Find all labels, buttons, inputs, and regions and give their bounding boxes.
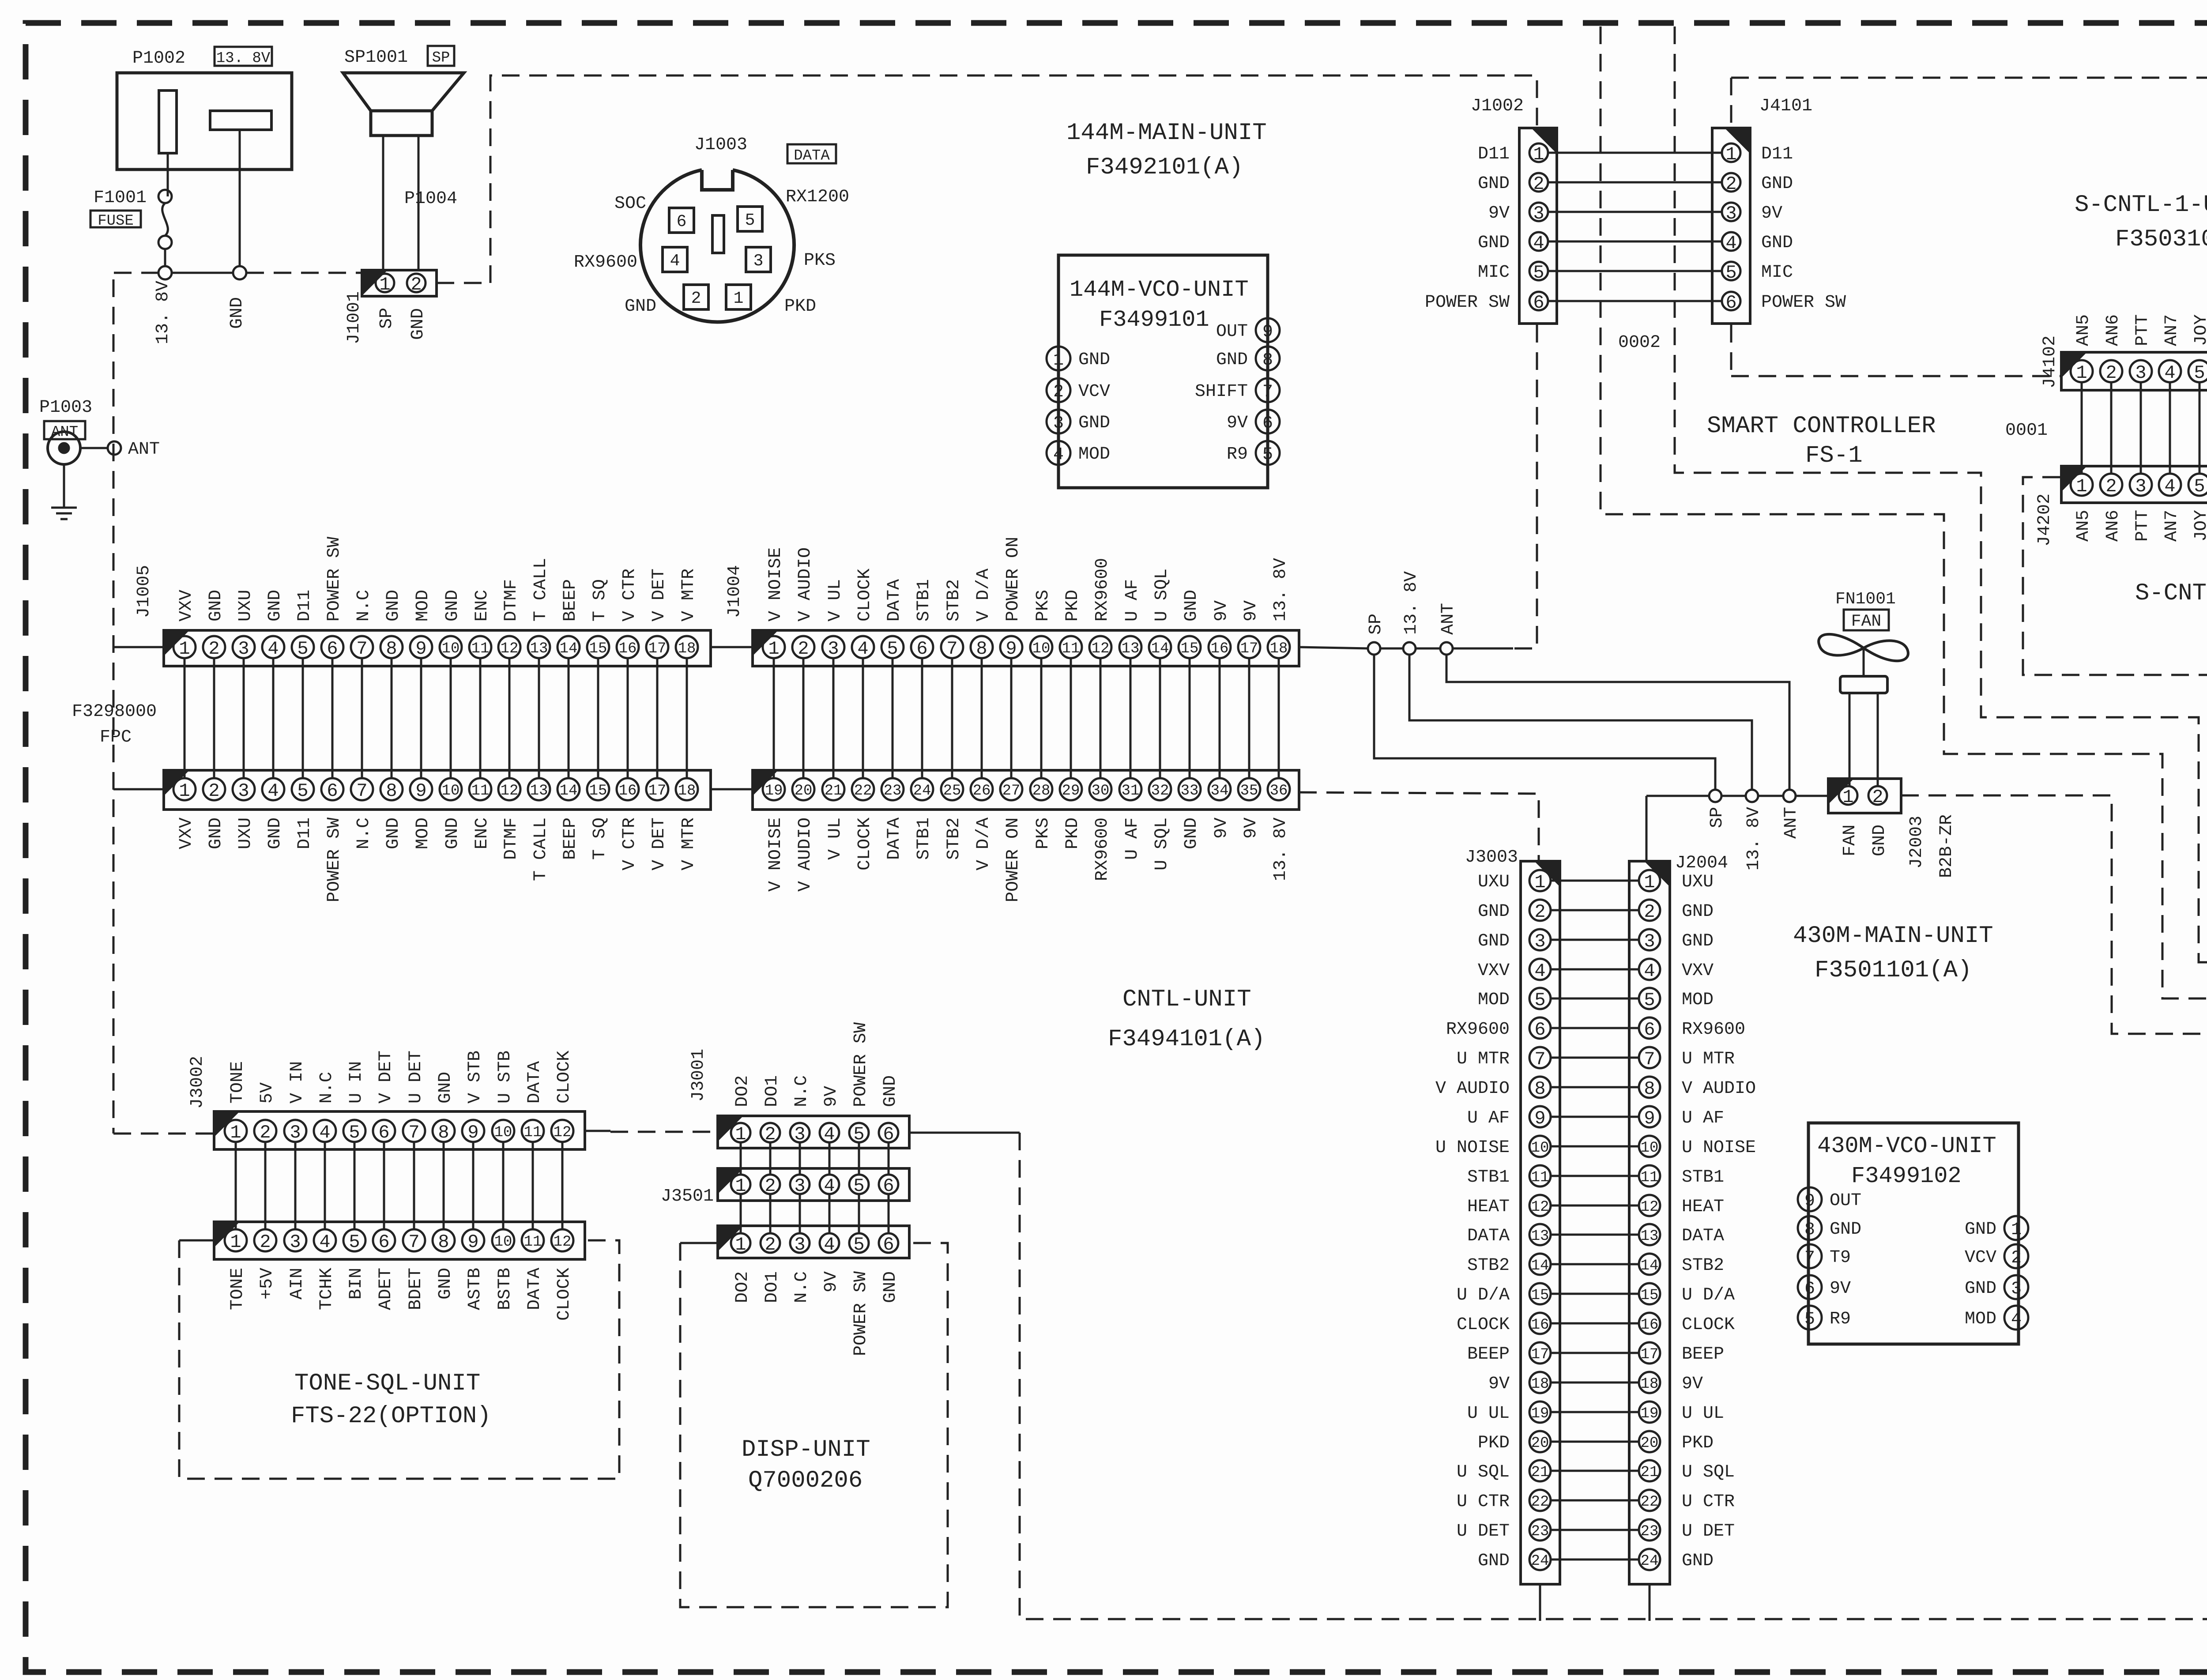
junction 13.8V (1) xyxy=(1403,642,1416,655)
svg-text:PKD: PKD xyxy=(1682,1433,1714,1453)
svg-text:3: 3 xyxy=(238,780,249,802)
svg-text:3: 3 xyxy=(290,1232,301,1253)
svg-text:26: 26 xyxy=(973,783,991,799)
svg-text:SP1001: SP1001 xyxy=(344,48,408,68)
svg-text:31: 31 xyxy=(1122,783,1140,799)
svg-text:8: 8 xyxy=(386,638,397,659)
svg-text:4: 4 xyxy=(2164,476,2175,497)
svg-text:SP: SP xyxy=(1366,614,1386,635)
boxed net label 13.8V xyxy=(215,47,272,66)
svg-text:STB2: STB2 xyxy=(944,579,964,622)
svg-text:5: 5 xyxy=(1534,990,1545,1011)
144M-VCO right pins 9-5 xyxy=(1256,318,1280,342)
svg-text:FAN: FAN xyxy=(1840,825,1860,856)
svg-text:CLOCK: CLOCK xyxy=(1682,1315,1735,1335)
svg-text:PTT: PTT xyxy=(2133,510,2153,542)
svg-text:2: 2 xyxy=(765,1175,776,1197)
svg-text:PKS: PKS xyxy=(1033,590,1053,622)
svg-text:22: 22 xyxy=(854,783,872,799)
svg-text:9V: 9V xyxy=(1830,1279,1851,1299)
svg-text:17: 17 xyxy=(1240,640,1258,657)
svg-text:N.C: N.C xyxy=(792,1075,812,1107)
svg-text:3: 3 xyxy=(2135,476,2146,497)
cable wires J4102 to J4202 xyxy=(2081,381,2083,475)
svg-text:DATA: DATA xyxy=(525,1268,545,1310)
svg-text:GND: GND xyxy=(436,1072,456,1104)
svg-text:D11: D11 xyxy=(295,590,315,622)
svg-text:24: 24 xyxy=(1531,1553,1549,1570)
430M-VCO right pins 1-4 xyxy=(2004,1216,2028,1240)
wire J1004 pin36 to J3003 xyxy=(1299,792,1539,861)
svg-text:6: 6 xyxy=(1534,1019,1545,1040)
wire S-CNTL-1 boundary (bottom-left) xyxy=(1731,375,2060,377)
svg-text:14: 14 xyxy=(1641,1258,1659,1274)
antenna jack P1003 (coax) xyxy=(48,432,80,464)
svg-text:T SQ: T SQ xyxy=(590,817,610,860)
svg-text:U MTR: U MTR xyxy=(1457,1049,1510,1069)
svg-text:18: 18 xyxy=(1531,1376,1549,1393)
svg-text:U D/A: U D/A xyxy=(1682,1285,1735,1305)
svg-text:MOD: MOD xyxy=(413,590,433,622)
svg-text:F3494101(A): F3494101(A) xyxy=(1108,1026,1265,1053)
svg-text:9: 9 xyxy=(1644,1108,1655,1129)
svg-text:0001: 0001 xyxy=(2005,421,2048,441)
svg-text:FTS-22(OPTION): FTS-22(OPTION) xyxy=(291,1403,491,1430)
wire J2004 bottom stem xyxy=(1649,1584,1651,1621)
svg-text:21: 21 xyxy=(1641,1464,1659,1481)
boxed label ANT xyxy=(44,421,85,439)
svg-text:19: 19 xyxy=(765,783,783,799)
svg-text:7: 7 xyxy=(1644,1049,1655,1070)
fan FN1001 motor xyxy=(1863,648,1865,676)
svg-text:2: 2 xyxy=(765,1234,776,1255)
wire between junctions xyxy=(1380,648,1403,650)
svg-text:4: 4 xyxy=(824,1234,835,1255)
svg-text:FAN: FAN xyxy=(1851,612,1881,631)
svg-text:24: 24 xyxy=(913,783,931,799)
cable wires J3002 xyxy=(235,1141,237,1230)
svg-text:6: 6 xyxy=(378,1232,389,1253)
svg-text:10: 10 xyxy=(1641,1140,1659,1156)
svg-text:J1002: J1002 xyxy=(1471,96,1524,116)
svg-text:CLOCK: CLOCK xyxy=(554,1268,574,1321)
svg-text:14: 14 xyxy=(560,640,578,657)
svg-text:13: 13 xyxy=(530,783,548,799)
svg-text:13. 8V: 13. 8V xyxy=(153,281,173,344)
svg-text:13: 13 xyxy=(530,640,548,657)
connector J4101 xyxy=(1712,128,1750,324)
connector J1002 xyxy=(1519,128,1557,324)
svg-text:2: 2 xyxy=(2105,362,2117,384)
svg-text:DO1: DO1 xyxy=(762,1075,782,1107)
svg-text:GND: GND xyxy=(206,590,226,622)
svg-text:3: 3 xyxy=(794,1234,805,1255)
boxed label FUSE xyxy=(90,211,141,227)
svg-text:24: 24 xyxy=(1641,1553,1659,1570)
svg-text:13. 8V: 13. 8V xyxy=(1401,571,1421,635)
svg-text:UXU: UXU xyxy=(236,817,256,849)
svg-text:D11: D11 xyxy=(1478,144,1510,164)
svg-text:PKD: PKD xyxy=(1478,1433,1510,1453)
wire J1005 to J1004 row1 xyxy=(711,646,753,648)
svg-text:CLOCK: CLOCK xyxy=(554,1051,574,1104)
svg-text:GND: GND xyxy=(1216,350,1248,370)
svg-text:144M-VCO-UNIT: 144M-VCO-UNIT xyxy=(1070,277,1249,303)
svg-text:5: 5 xyxy=(1533,262,1544,283)
svg-text:9V: 9V xyxy=(1488,203,1510,223)
svg-text:6: 6 xyxy=(883,1124,894,1145)
svg-text:OUT: OUT xyxy=(1216,322,1248,342)
wire 144M-MAIN-UNIT boundary (top) xyxy=(490,75,1537,283)
wire S-CNTL-1 boundary (left) xyxy=(1730,78,1732,127)
boxed label FAN xyxy=(1844,610,1889,630)
svg-text:GND: GND xyxy=(1078,413,1110,433)
svg-text:DATA: DATA xyxy=(794,148,830,165)
svg-text:R9: R9 xyxy=(1227,444,1248,464)
svg-text:8: 8 xyxy=(1262,350,1273,370)
svg-text:22: 22 xyxy=(1531,1494,1549,1510)
svg-text:GND: GND xyxy=(881,1271,900,1303)
svg-text:U NOISE: U NOISE xyxy=(1435,1138,1510,1158)
FPC ribbon wires J1004 xyxy=(773,657,775,779)
svg-text:21: 21 xyxy=(1531,1464,1549,1481)
svg-text:5: 5 xyxy=(1262,445,1273,465)
svg-text:GND: GND xyxy=(1478,902,1510,922)
fan FN1001 blades xyxy=(1819,634,1908,661)
svg-text:AN5: AN5 xyxy=(2074,314,2094,346)
svg-text:GND: GND xyxy=(265,590,285,622)
svg-text:1: 1 xyxy=(230,1122,241,1143)
svg-text:36: 36 xyxy=(1270,783,1288,799)
svg-text:V STB: V STB xyxy=(465,1051,485,1104)
svg-text:1: 1 xyxy=(735,1124,746,1145)
svg-text:GND: GND xyxy=(443,817,463,849)
svg-text:23: 23 xyxy=(1641,1523,1659,1540)
connector J4102 xyxy=(2061,352,2207,390)
svg-text:10: 10 xyxy=(1032,640,1051,657)
svg-text:ENC: ENC xyxy=(472,590,492,622)
wire ANT net xyxy=(1446,655,1789,790)
svg-text:13. 8V: 13. 8V xyxy=(1744,807,1764,870)
connector J4202 xyxy=(2061,466,2207,503)
svg-text:GND: GND xyxy=(206,817,226,849)
svg-text:9: 9 xyxy=(415,638,426,659)
svg-text:J1003: J1003 xyxy=(694,135,747,155)
svg-text:V NOISE: V NOISE xyxy=(766,817,786,892)
svg-text:B2B-ZR: B2B-ZR xyxy=(1937,814,1957,878)
svg-text:5: 5 xyxy=(2194,362,2205,384)
svg-text:TONE: TONE xyxy=(228,1061,248,1104)
svg-text:7: 7 xyxy=(1262,382,1273,402)
svg-text:U SQL: U SQL xyxy=(1682,1462,1735,1482)
svg-text:5: 5 xyxy=(297,638,308,659)
svg-text:14: 14 xyxy=(1151,640,1169,657)
svg-text:BIN: BIN xyxy=(346,1268,366,1300)
junction SP (1) xyxy=(1368,642,1380,655)
svg-text:17: 17 xyxy=(1641,1346,1659,1363)
svg-text:12: 12 xyxy=(554,1234,572,1251)
svg-text:GND: GND xyxy=(384,590,403,622)
svg-text:1: 1 xyxy=(179,638,190,659)
svg-text:1: 1 xyxy=(230,1232,241,1253)
svg-text:S-CNTL-2-UNIT: S-CNTL-2-UNIT xyxy=(2135,580,2207,607)
svg-text:13: 13 xyxy=(1641,1228,1659,1245)
svg-text:17: 17 xyxy=(1531,1346,1549,1363)
svg-text:17: 17 xyxy=(648,640,667,657)
P1002 contact bar (13.8V pin) xyxy=(159,90,177,153)
svg-text:J1001: J1001 xyxy=(344,291,364,344)
svg-text:29: 29 xyxy=(1062,783,1080,799)
boxed label DATA xyxy=(787,144,836,163)
svg-text:16: 16 xyxy=(619,640,637,657)
svg-text:VXV: VXV xyxy=(177,817,196,849)
svg-text:J1005: J1005 xyxy=(134,565,154,618)
wire unit boundary staircase (inner) xyxy=(1601,26,2207,998)
cable wires J3001 to J3501 xyxy=(740,1142,742,1175)
junction ANT (1) xyxy=(1440,642,1453,655)
svg-text:7: 7 xyxy=(1804,1248,1815,1268)
svg-text:19: 19 xyxy=(1641,1405,1659,1422)
svg-text:J3001: J3001 xyxy=(689,1049,708,1102)
svg-text:GND: GND xyxy=(1182,590,1201,622)
svg-text:4: 4 xyxy=(2164,362,2175,384)
svg-text:5V: 5V xyxy=(257,1082,277,1104)
svg-text:U IN: U IN xyxy=(346,1061,366,1104)
svg-text:DATA: DATA xyxy=(1682,1226,1724,1246)
svg-text:2: 2 xyxy=(2105,476,2117,497)
svg-text:4: 4 xyxy=(670,252,680,271)
svg-text:7: 7 xyxy=(408,1122,419,1143)
svg-text:MIC: MIC xyxy=(1761,263,1793,283)
svg-text:TONE: TONE xyxy=(228,1268,248,1310)
svg-text:POWER SW: POWER SW xyxy=(324,537,344,622)
svg-text:J2004: J2004 xyxy=(1675,853,1728,873)
block 430M-VCO-UNIT xyxy=(1808,1123,2019,1344)
svg-text:7: 7 xyxy=(946,638,957,659)
svg-text:DISP-UNIT: DISP-UNIT xyxy=(742,1436,870,1463)
svg-text:16: 16 xyxy=(1531,1317,1549,1333)
svg-text:18: 18 xyxy=(1641,1376,1659,1393)
svg-text:PKD: PKD xyxy=(1063,817,1083,849)
svg-text:BEEP: BEEP xyxy=(561,579,580,622)
svg-text:F1001: F1001 xyxy=(94,188,147,208)
wires J3003 to J2004 xyxy=(1551,880,1639,882)
svg-text:SMART CONTROLLER: SMART CONTROLLER xyxy=(1707,413,1936,440)
svg-text:7: 7 xyxy=(1534,1049,1545,1070)
svg-text:U DET: U DET xyxy=(406,1051,426,1104)
svg-text:6: 6 xyxy=(1262,414,1273,433)
svg-text:9: 9 xyxy=(415,780,426,802)
svg-text:MOD: MOD xyxy=(1682,990,1714,1010)
svg-text:TCHK: TCHK xyxy=(317,1268,337,1310)
svg-text:4: 4 xyxy=(2011,1310,2022,1330)
svg-text:GND: GND xyxy=(881,1075,900,1107)
svg-text:3: 3 xyxy=(2135,362,2146,384)
svg-text:4: 4 xyxy=(824,1175,835,1197)
svg-text:U MTR: U MTR xyxy=(1682,1049,1735,1069)
svg-text:22: 22 xyxy=(1641,1494,1659,1510)
svg-text:28: 28 xyxy=(1032,783,1051,799)
svg-text:1: 1 xyxy=(768,638,779,659)
svg-text:3: 3 xyxy=(290,1122,301,1143)
svg-text:J4102: J4102 xyxy=(2040,335,2060,388)
svg-text:9V: 9V xyxy=(1227,413,1248,433)
svg-text:BEEP: BEEP xyxy=(561,817,580,860)
svg-text:AIN: AIN xyxy=(287,1268,307,1300)
svg-text:1: 1 xyxy=(1725,144,1736,165)
svg-text:6: 6 xyxy=(327,780,338,802)
svg-text:GND: GND xyxy=(1478,1551,1510,1571)
svg-text:5: 5 xyxy=(349,1232,360,1253)
svg-text:+5V: +5V xyxy=(257,1268,277,1300)
svg-text:11: 11 xyxy=(471,640,490,657)
connector J3003 xyxy=(1521,861,1560,1584)
wire P1002 GND pin down xyxy=(239,130,241,266)
svg-text:14: 14 xyxy=(560,783,578,799)
svg-text:MOD: MOD xyxy=(1078,444,1110,464)
svg-text:J4202: J4202 xyxy=(2035,493,2055,546)
svg-text:U AF: U AF xyxy=(1682,1108,1724,1128)
svg-text:23: 23 xyxy=(884,783,902,799)
svg-text:RX9600: RX9600 xyxy=(1092,558,1112,622)
svg-text:DO2: DO2 xyxy=(733,1271,753,1303)
cable wires J3501 rows xyxy=(740,1194,742,1234)
svg-text:J4101: J4101 xyxy=(1759,96,1812,116)
svg-text:P1003: P1003 xyxy=(39,398,92,418)
svg-text:18: 18 xyxy=(1270,640,1288,657)
svg-text:U CTR: U CTR xyxy=(1682,1492,1735,1512)
svg-text:P1004: P1004 xyxy=(404,189,457,209)
svg-text:9V: 9V xyxy=(1212,600,1232,622)
svg-text:F3492101(A): F3492101(A) xyxy=(1086,154,1243,181)
svg-text:5: 5 xyxy=(297,780,308,802)
svg-text:11: 11 xyxy=(471,783,490,799)
svg-text:15: 15 xyxy=(589,783,607,799)
svg-text:6: 6 xyxy=(883,1234,894,1255)
svg-text:BEEP: BEEP xyxy=(1682,1345,1724,1364)
connector J1004 (top row) xyxy=(753,630,1299,666)
svg-text:ANT: ANT xyxy=(1781,807,1801,839)
svg-text:ADET: ADET xyxy=(376,1268,396,1310)
svg-text:10: 10 xyxy=(442,783,460,799)
connector J1004 (bottom row) xyxy=(753,770,1299,810)
svg-text:POWER SW: POWER SW xyxy=(1425,293,1510,313)
svg-text:5: 5 xyxy=(745,211,755,230)
svg-text:8: 8 xyxy=(386,780,397,802)
svg-text:6: 6 xyxy=(327,638,338,659)
svg-text:19: 19 xyxy=(1531,1405,1549,1422)
svg-text:U SQL: U SQL xyxy=(1457,1462,1510,1482)
connector J3501 (upper row) xyxy=(718,1168,909,1201)
junction GND on supply wire xyxy=(233,266,246,279)
svg-text:DTMF: DTMF xyxy=(501,817,521,860)
svg-text:9V: 9V xyxy=(1241,817,1261,839)
connector J3001 xyxy=(718,1116,909,1148)
svg-text:9: 9 xyxy=(1804,1191,1815,1211)
svg-text:VXV: VXV xyxy=(1682,961,1714,981)
svg-text:9V: 9V xyxy=(1212,817,1232,839)
svg-text:N.C: N.C xyxy=(317,1072,337,1104)
svg-text:V DET: V DET xyxy=(376,1051,396,1104)
connector J1005 (bottom row) xyxy=(164,770,711,810)
svg-text:3: 3 xyxy=(1533,203,1544,224)
svg-text:VXV: VXV xyxy=(177,590,196,622)
svg-text:GND: GND xyxy=(408,308,428,340)
svg-text:2: 2 xyxy=(411,274,422,295)
wire J3001 to CNTL boundary xyxy=(909,1132,1020,1134)
svg-text:GND: GND xyxy=(443,590,463,622)
fuse F1001 symbol xyxy=(158,190,172,203)
svg-text:2: 2 xyxy=(1725,173,1736,195)
wire J3003 bottom stem xyxy=(1539,1584,1541,1621)
svg-text:SP: SP xyxy=(377,308,397,329)
svg-text:35: 35 xyxy=(1240,783,1258,799)
svg-text:F3501101(A): F3501101(A) xyxy=(1815,957,1972,984)
wire 13.8V net xyxy=(1409,655,1752,790)
svg-text:9V: 9V xyxy=(821,1271,841,1292)
svg-text:4: 4 xyxy=(1533,233,1544,254)
svg-text:RX9600: RX9600 xyxy=(1092,817,1112,881)
svg-text:F3298000: F3298000 xyxy=(72,702,157,722)
svg-text:2: 2 xyxy=(1533,173,1544,195)
svg-text:N.C: N.C xyxy=(792,1271,812,1303)
svg-text:HEAT: HEAT xyxy=(1682,1197,1724,1217)
svg-text:STB1: STB1 xyxy=(914,579,934,622)
svg-text:9V: 9V xyxy=(821,1086,841,1107)
svg-text:HEAT: HEAT xyxy=(1467,1197,1510,1217)
svg-text:32: 32 xyxy=(1151,783,1169,799)
svg-text:430M-VCO-UNIT: 430M-VCO-UNIT xyxy=(1817,1133,1996,1159)
wire TONE-SQL boundary xyxy=(179,1239,214,1242)
svg-text:6: 6 xyxy=(1533,292,1544,313)
svg-text:4: 4 xyxy=(857,638,868,659)
svg-text:12: 12 xyxy=(1092,640,1110,657)
svg-text:U AF: U AF xyxy=(1122,579,1142,622)
svg-text:1: 1 xyxy=(735,1175,746,1197)
svg-text:POWER ON: POWER ON xyxy=(1003,817,1023,902)
svg-text:DTMF: DTMF xyxy=(501,579,521,622)
svg-text:20: 20 xyxy=(795,783,813,799)
svg-text:30: 30 xyxy=(1092,783,1110,799)
svg-text:1: 1 xyxy=(1534,872,1545,893)
svg-text:OUT: OUT xyxy=(1830,1191,1861,1211)
svg-text:2: 2 xyxy=(1644,901,1655,923)
svg-text:J3003: J3003 xyxy=(1465,848,1518,867)
svg-text:17: 17 xyxy=(648,783,667,799)
wire CNTL-UNIT boundary (right/bottom) xyxy=(1020,1133,2207,1619)
svg-text:N.C: N.C xyxy=(354,817,374,849)
wire J2004 stem xyxy=(1646,796,1648,861)
svg-text:PKD: PKD xyxy=(784,297,816,316)
wire 144M-MAIN-UNIT boundary (left vertical) xyxy=(113,279,115,1134)
svg-text:1: 1 xyxy=(1644,872,1655,893)
svg-text:ANT: ANT xyxy=(128,440,160,460)
svg-text:18: 18 xyxy=(678,640,696,657)
svg-text:1: 1 xyxy=(1842,787,1853,808)
svg-text:BDET: BDET xyxy=(406,1268,426,1310)
svg-text:SP: SP xyxy=(432,50,450,67)
svg-text:U NOISE: U NOISE xyxy=(1682,1138,1756,1158)
svg-text:U UL: U UL xyxy=(1467,1404,1510,1424)
svg-text:4: 4 xyxy=(1534,961,1545,982)
svg-text:144M-MAIN-UNIT: 144M-MAIN-UNIT xyxy=(1066,120,1267,147)
svg-text:ENC: ENC xyxy=(472,817,492,849)
svg-text:RX9600: RX9600 xyxy=(1446,1020,1510,1040)
svg-text:STB1: STB1 xyxy=(1467,1168,1510,1187)
svg-text:1: 1 xyxy=(2011,1220,2022,1240)
svg-text:8: 8 xyxy=(976,638,987,659)
junction ANT xyxy=(108,441,121,455)
